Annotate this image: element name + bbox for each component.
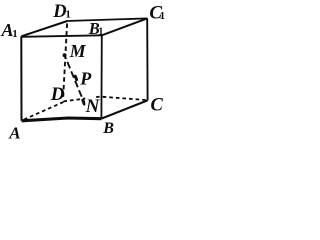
label C1 bbox=[149, 2, 165, 23]
svg-text:1: 1 bbox=[65, 9, 71, 21]
edge B1-C1 (top-right receding) bbox=[102, 18, 147, 35]
svg-text:1: 1 bbox=[160, 10, 166, 22]
edge A1-D1 (top-left receding) bbox=[21, 21, 67, 36]
point P bbox=[75, 76, 76, 79]
svg-text:P: P bbox=[79, 69, 92, 89]
hidden edge D-D1 (dashed vertical) bbox=[63, 23, 67, 96]
svg-text:A: A bbox=[8, 123, 20, 142]
edge A-B (bottom front, thick) bbox=[22, 118, 102, 121]
svg-text:1: 1 bbox=[98, 27, 103, 38]
svg-text:M: M bbox=[69, 41, 87, 61]
hidden edge D-A (dashed) bbox=[22, 102, 63, 120]
svg-text:B: B bbox=[102, 120, 114, 137]
edge C-C1 (right vertical) bbox=[146, 18, 148, 100]
label B1 bbox=[88, 19, 104, 38]
label N background bbox=[85, 95, 94, 111]
svg-text:D: D bbox=[50, 84, 65, 105]
segment M-N through P (dashed) bbox=[64, 55, 84, 103]
edge B-C (bottom-right receding) bbox=[101, 100, 147, 118]
label D1 bbox=[52, 2, 71, 22]
edge B-B1 (middle vertical) bbox=[100, 35, 102, 119]
hidden edge D-C (dashed) bbox=[63, 97, 147, 102]
edge D1-C1 (top back) bbox=[67, 18, 147, 21]
label A1 bbox=[1, 20, 18, 40]
svg-text:C: C bbox=[151, 95, 164, 115]
point M bbox=[63, 53, 67, 57]
edge A1-B1 (top front) bbox=[21, 35, 102, 37]
svg-text:N: N bbox=[85, 96, 101, 117]
svg-text:1: 1 bbox=[12, 28, 17, 40]
edge A-A1 (left vertical) bbox=[20, 36, 22, 120]
point N marker bbox=[83, 100, 84, 104]
